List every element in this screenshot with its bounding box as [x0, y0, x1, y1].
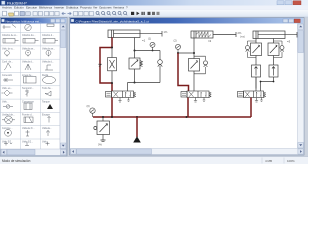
- svg-text:Unidad de...: Unidad de...: [2, 114, 15, 117]
- svg-text:100%: 100%: [287, 159, 295, 163]
- svg-text:=3: =3: [287, 40, 291, 44]
- svg-text:Didáctica: Didáctica: [66, 6, 79, 10]
- toolbar: [0, 10, 308, 17]
- throttle valve 1V1: [108, 58, 117, 71]
- row connectors: [3, 78, 13, 82]
- svg-text:Biblioteca: Biblioteca: [39, 6, 52, 10]
- svg-text:Proyecto: Proyecto: [80, 6, 92, 10]
- directional valve 1V (5/2): [106, 91, 136, 98]
- wire red: valve1 to manifold: [111, 98, 113, 118]
- svg-text:=2: =2: [208, 39, 212, 43]
- svg-text:Tanque: Tanque: [42, 100, 51, 103]
- row: circle-dot / tiny Ts: [5, 129, 12, 136]
- svg-text:Válvula d...: Válvula d...: [22, 61, 34, 64]
- svg-text:Válv. es...: Válv. es...: [2, 87, 13, 90]
- wire: join into valve right port: [127, 83, 129, 92]
- svg-text:Fuente d...: Fuente d...: [22, 114, 34, 117]
- compressed air source 0Z: [136, 117, 138, 137]
- svg-text:Válv. de a...: Válv. de a...: [2, 47, 15, 50]
- svg-text:Ejecutar: Ejecutar: [26, 6, 37, 10]
- library grid: [1, 24, 60, 150]
- cylinder 3A (double acting): [253, 31, 297, 39]
- cylinder 2A (single acting, spring return): [191, 31, 236, 38]
- window buttons: [277, 1, 284, 5]
- v scrollbar: [60, 24, 66, 150]
- svg-text:Válv. 3/2...: Válv. 3/2...: [22, 140, 33, 143]
- row gauges: [6, 55, 8, 57]
- canvas: [70, 24, 297, 149]
- svg-text:Neumática: biblioteca est...: Neumática: biblioteca est...: [6, 19, 42, 23]
- wire red: bypass loop left (check valve line): [100, 48, 112, 84]
- component 3V3: [252, 65, 261, 77]
- row: compressor circle / small valve / vert arrow: [5, 116, 13, 124]
- row: arrow sym / compressor / filled triangle: [3, 106, 13, 108]
- svg-text:Cilindro do...: Cilindro do...: [22, 34, 36, 37]
- wire: cylinder1 right port: [135, 38, 161, 59]
- row misc: [2, 90, 13, 96]
- check valve branch 1V3: [158, 51, 163, 83]
- component 3V4: [269, 65, 278, 77]
- wire red: into valve port 4: [111, 83, 113, 91]
- wire red: manifold riser to valve3: [250, 98, 252, 118]
- flow control 2V1: [189, 56, 208, 74]
- svg-text:Cilindro d...: Cilindro d...: [42, 34, 54, 37]
- svg-text:Insertar: Insertar: [54, 6, 64, 10]
- wire red: cylinder1 left port down: [111, 38, 113, 48]
- row cylinders: [3, 39, 15, 44]
- h scrollbar: [1, 149, 67, 155]
- magnifier icons: [96, 11, 127, 15]
- service unit / regulator 0V1: [94, 117, 110, 142]
- svg-text:=1: =1: [142, 39, 146, 43]
- wire red: main manifold: [93, 116, 251, 118]
- gauge 0Z1 at manifold end: [90, 108, 95, 117]
- status bar: [0, 157, 308, 165]
- wire: cyl3 left port: [255, 39, 257, 44]
- directional valve 2V (5/2): [181, 91, 211, 98]
- svg-text:Válvula 3/...: Válvula 3/...: [22, 127, 35, 130]
- flow control 3V1: [246, 41, 262, 58]
- svg-text:Archivo: Archivo: [2, 6, 12, 10]
- svg-text:Temporiz...: Temporiz...: [22, 87, 34, 90]
- svg-text:Escape: Escape: [42, 114, 51, 117]
- svg-text:(0): (0): [87, 104, 90, 108]
- svg-text:(+a): (+a): [240, 35, 245, 39]
- flow control 3V2: [268, 41, 284, 58]
- check valve on bypass: [98, 64, 101, 66]
- v scrollbar: [298, 24, 304, 149]
- manifold node dots: [102, 116, 188, 118]
- node dots circuit1: [111, 47, 153, 85]
- svg-text:Válv...: Válv...: [2, 100, 9, 103]
- directional valve 3V (5/2): [238, 91, 266, 98]
- cylinder 1A (double acting): [108, 30, 162, 38]
- wire: 3V3 to valve3: [255, 77, 257, 89]
- svg-text:Válvula...: Válvula...: [42, 127, 52, 130]
- svg-text:Opciones: Opciones: [99, 6, 112, 10]
- valve3 exhausts: [255, 98, 258, 103]
- svg-text:Válvula an...: Válvula an...: [42, 47, 55, 50]
- valve1 exhausts: [118, 98, 121, 103]
- svg-text:Cilindro de si...: Cilindro de si...: [2, 34, 18, 37]
- svg-text:C:\Program Files\Didactic\fl_s: C:\Program Files\Didactic\fl_sim_p\ct\di…: [76, 19, 150, 23]
- wire red: valve2 to manifold: [187, 98, 189, 118]
- svg-text:Edición: Edición: [14, 6, 24, 10]
- wire: flow control to valve2: [193, 71, 195, 91]
- valve2 exhausts: [194, 98, 197, 103]
- menu bar: [0, 6, 308, 10]
- captions (smudge text): [2, 34, 55, 143]
- svg-text:Válv...: Válv...: [42, 140, 49, 143]
- svg-text:(1): (1): [148, 37, 151, 41]
- wire: 3V4 down and jog to valve3: [256, 77, 274, 91]
- svg-text:Válvula an...: Válvula an...: [22, 47, 35, 50]
- node dots circuit2: [177, 52, 195, 54]
- bottom partial row: [4, 142, 12, 146]
- library symbols: [2, 24, 59, 146]
- main title bar: [0, 0, 308, 6]
- wire: regulator to join: [128, 69, 161, 83]
- app background: [0, 0, 308, 164]
- svg-text:4 MB: 4 MB: [265, 159, 272, 163]
- wire: 3V1 to 3V3: [255, 56, 257, 66]
- wire: through throttle branch: [111, 48, 113, 84]
- svg-text:FluidSIM-P: FluidSIM-P: [7, 0, 27, 5]
- wire: 3V2 to 3V4: [273, 56, 275, 66]
- svg-text:Conexión: Conexión: [2, 74, 13, 77]
- wire: cylinder2 port to tee: [178, 38, 194, 59]
- row curves: [4, 63, 11, 70]
- h scrollbar: [70, 149, 304, 155]
- svg-text:Modo de simulación: Modo de simulación: [2, 159, 31, 163]
- regulator 1V2: [129, 58, 143, 69]
- svg-text:(2): (2): [174, 39, 177, 43]
- svg-text:Válvula d...: Válvula d...: [42, 61, 54, 64]
- wire red: feed riser to valve2: [178, 53, 189, 91]
- svg-text:Válv. 5/2...: Válv. 5/2...: [2, 140, 13, 143]
- simulation controls: [131, 12, 134, 15]
- svg-text:Ver: Ver: [93, 6, 98, 10]
- svg-text:Tubo fle...: Tubo fle...: [42, 87, 53, 90]
- wire: cyl3 right port: [273, 39, 275, 44]
- pressure gauge 2Z1: [176, 44, 181, 53]
- pressure gauge 1Z1: [150, 42, 155, 50]
- svg-text:Ventana: Ventana: [113, 6, 124, 10]
- partial top row symbols: [3, 25, 17, 30]
